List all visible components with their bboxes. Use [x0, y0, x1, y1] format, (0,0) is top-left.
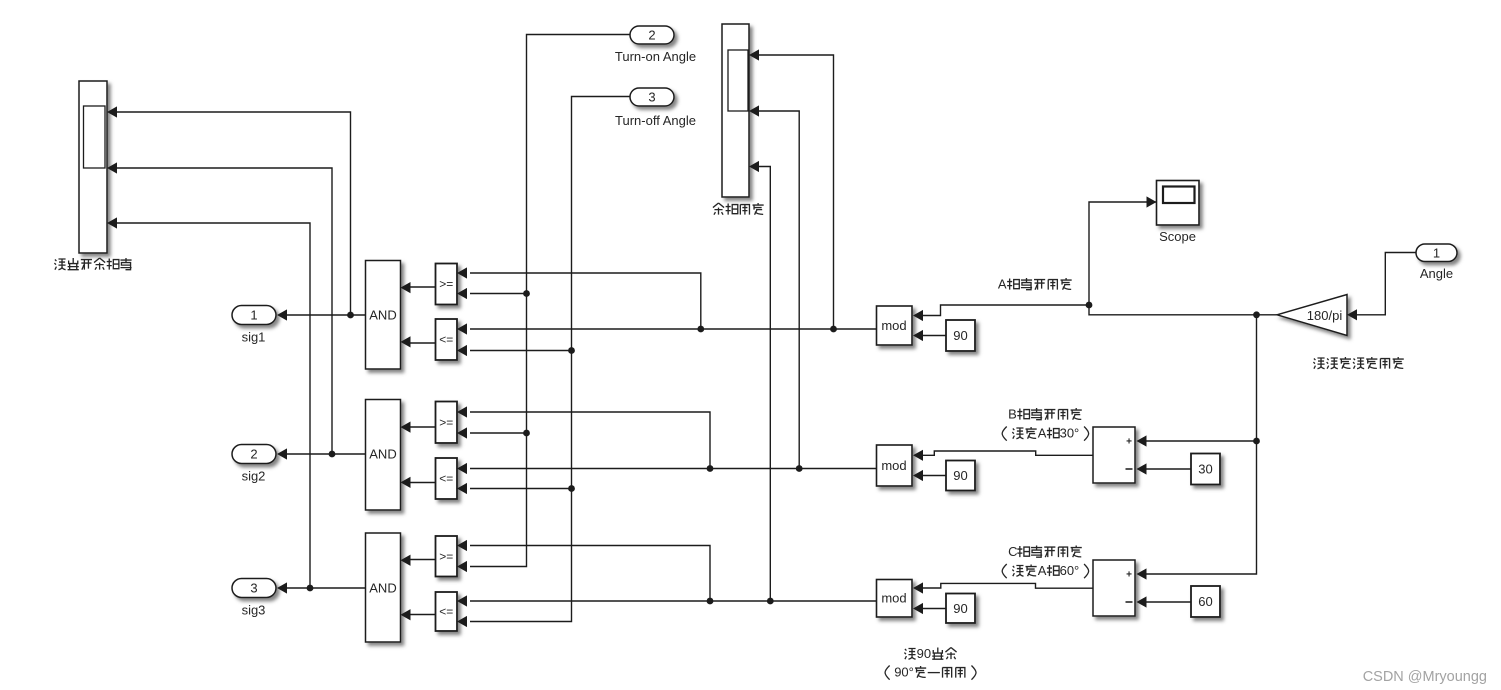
wire branch to GE2 in2	[470, 432, 527, 434]
svg-text:90°: 90°	[894, 665, 914, 680]
sum B minus input arrow	[1137, 463, 1147, 474]
wire Turn-on Angle to GE3 in2 (trunk)	[470, 35, 630, 567]
junction sig2 net	[329, 451, 336, 458]
junction turn-on trunk at GE1	[523, 290, 530, 297]
junction mod A line / 各相角度 riser	[830, 326, 837, 333]
label （滞后A相30°）	[1002, 426, 1088, 441]
GE3 input arrow 1	[457, 540, 467, 551]
sum block (phase B)	[1093, 427, 1135, 483]
port sig2 input arrow	[277, 448, 287, 459]
wire branch to GE1 in2	[470, 293, 527, 295]
svg-text:2: 2	[250, 447, 257, 462]
viewer 各相角度 inner screen	[728, 50, 748, 111]
AND2 input arrow 1	[401, 422, 411, 433]
svg-text:180/pi: 180/pi	[1307, 308, 1343, 323]
gain block 180/pi (rad to deg)	[1277, 295, 1347, 336]
svg-text:mod: mod	[881, 591, 906, 606]
label （90°为一周期）	[885, 665, 976, 680]
svg-text:1: 1	[250, 308, 257, 323]
junction at gain line to sum riser	[1253, 311, 1260, 318]
relational operator LE3 (<=)	[436, 592, 458, 631]
LE1 input arrow 1	[457, 323, 467, 334]
input port 2 Turn-on Angle oval	[630, 26, 674, 44]
relational operator LE2 (<=)	[436, 458, 458, 499]
wire sum B output to mod B in1 (jogged)	[917, 451, 1093, 455]
GE1 input arrow 2	[457, 288, 467, 299]
gain input arrow	[1347, 309, 1357, 320]
junction sig1 net	[347, 312, 354, 319]
label 除90取余 under mod C	[904, 646, 956, 661]
constant 90 block (phase A)	[946, 320, 975, 351]
junction sum riser at sum B	[1253, 438, 1260, 445]
mod B input arrow 1	[913, 450, 923, 461]
junction mod B line / GE2 branch	[707, 465, 714, 472]
wire LE2 output to AND2 in2	[405, 482, 436, 484]
label B相当前角度	[1008, 407, 1082, 422]
junction sig3 net	[307, 585, 314, 592]
junction mod A line / GE1 branch	[697, 326, 704, 333]
svg-text:<=: <=	[439, 472, 453, 486]
LE2 input arrow 2	[457, 483, 467, 494]
wire gain output to scope riser	[1089, 202, 1277, 315]
mod A input arrow 2	[913, 330, 923, 341]
sum C minus input arrow	[1137, 596, 1147, 607]
Scope inner screen	[1163, 187, 1195, 204]
svg-text:mod: mod	[881, 458, 906, 473]
wire sig2 net to viewer input2	[111, 168, 332, 454]
logical operator AND1	[366, 261, 401, 370]
constant 90 block (phase C)	[946, 594, 975, 624]
logical operator AND2	[366, 400, 401, 511]
GE1 input arrow 1	[457, 267, 467, 278]
svg-text:Angle: Angle	[1420, 266, 1453, 281]
port sig3 input arrow	[277, 582, 287, 593]
junction mod B line / 各相角度 riser 2	[796, 465, 803, 472]
svg-text:AND: AND	[369, 581, 396, 596]
svg-text:Turn-off Angle: Turn-off Angle	[615, 113, 696, 128]
AND1 input arrow 2	[401, 336, 411, 347]
wire branch to GE3 in1	[470, 546, 710, 602]
junction turn-off trunk at LE1	[568, 347, 575, 354]
label 各相角度 under phase viewer	[713, 203, 764, 215]
svg-text:+: +	[1126, 570, 1132, 581]
wire GE2 output to AND2 in1	[405, 426, 436, 428]
svg-text:>=: >=	[439, 549, 453, 563]
wire GE3 output to AND3 in1	[405, 559, 436, 561]
LE3 input arrow 1	[457, 595, 467, 606]
junction at scope riser / A-phase branch	[1086, 302, 1093, 309]
wire branch to sum B plus input	[1141, 440, 1257, 442]
label 将弧度转为角度 under gain	[1313, 357, 1403, 369]
constant 30 block	[1191, 454, 1220, 485]
AND2 input arrow 2	[401, 477, 411, 488]
svg-text:90: 90	[917, 646, 931, 661]
relational operator GE2 (>=)	[436, 402, 458, 444]
viewer 输出开关信号 input arrow 1	[107, 106, 117, 117]
wire mod C output to LE3 in1	[470, 600, 877, 602]
sum C minus sign	[1126, 601, 1133, 603]
signal viewer block 输出开关信号 (output switch signals)	[79, 81, 107, 253]
mod block (phase C)	[877, 580, 913, 618]
wire branch to LE1 in2	[470, 350, 572, 352]
svg-text:60°: 60°	[1060, 563, 1080, 578]
svg-text:Scope: Scope	[1159, 229, 1196, 244]
wire AND1 output to sig1	[281, 314, 366, 316]
wire 各相角度 input1 riser	[753, 55, 834, 329]
wire 各相角度 input3 riser	[753, 167, 770, 602]
wire branch to LE2 in2	[470, 488, 572, 490]
svg-text:+: +	[1126, 437, 1132, 448]
constant 90 block (phase B)	[946, 461, 975, 491]
sum B plus input arrow	[1137, 435, 1147, 446]
viewer 各相角度 input arrow 3	[749, 161, 759, 172]
svg-text:<=: <=	[439, 605, 453, 619]
output port 1 sig1 oval	[232, 306, 276, 325]
wire constant 60 to sum C minus	[1141, 601, 1191, 603]
output port 3 sig3 oval	[232, 579, 276, 598]
svg-text:60: 60	[1198, 594, 1212, 609]
sum C plus input arrow	[1137, 568, 1147, 579]
wire constant 90 C to mod C in2	[917, 608, 946, 610]
LE2 input arrow 1	[457, 463, 467, 474]
svg-text:AND: AND	[369, 447, 396, 462]
phase-angle viewer block 各相角度	[722, 24, 749, 197]
label 输出开关信号 under viewer block	[54, 258, 131, 270]
output port 2 sig2 oval	[232, 445, 276, 464]
junction turn-off trunk at LE2	[568, 485, 575, 492]
svg-text:A: A	[1038, 426, 1047, 441]
svg-text:>=: >=	[439, 277, 453, 291]
svg-text:3: 3	[648, 90, 655, 105]
port sig1 input arrow	[277, 309, 287, 320]
svg-text:90: 90	[953, 328, 967, 343]
sum block (phase C)	[1093, 560, 1135, 616]
wire branch to GE2 in1	[470, 412, 710, 469]
wire GE1 output to AND1 in1	[405, 286, 436, 288]
wire 各相角度 input2 riser	[753, 111, 799, 469]
svg-text:<=: <=	[439, 333, 453, 347]
wire mod A output to LE1 in1	[470, 328, 877, 330]
svg-text:90: 90	[953, 468, 967, 483]
viewer 输出开关信号 input arrow 3	[107, 217, 117, 228]
svg-text:mod: mod	[881, 318, 906, 333]
svg-text:30: 30	[1198, 462, 1212, 477]
svg-text:B: B	[1008, 407, 1017, 422]
mod C input arrow 1	[913, 582, 923, 593]
GE2 input arrow 2	[457, 427, 467, 438]
wire constant 90 B to mod B in2	[917, 475, 946, 477]
constant 60 block	[1191, 586, 1220, 617]
mod block (phase B)	[877, 445, 913, 486]
svg-text:1: 1	[1433, 245, 1440, 260]
mod B input arrow 2	[913, 470, 923, 481]
mod block (phase A)	[877, 306, 913, 345]
mod C input arrow 2	[913, 603, 923, 614]
wire branch to GE1 in1	[470, 273, 701, 329]
viewer 各相角度 input arrow 2	[749, 105, 759, 116]
viewer 输出开关信号 inner screen	[84, 106, 106, 168]
label C相当前角度	[1008, 544, 1082, 559]
junction mod C line / 各相角度 riser 3	[767, 598, 774, 605]
GE2 input arrow 1	[457, 406, 467, 417]
svg-text:90: 90	[953, 601, 967, 616]
AND1 input arrow 1	[401, 282, 411, 293]
AND3 input arrow 2	[401, 609, 411, 620]
wire sum C output to mod C in1 (jogged)	[917, 583, 1093, 588]
svg-text:CSDN @Mryoungg: CSDN @Mryoungg	[1363, 669, 1487, 685]
junction turn-on trunk at GE2	[523, 430, 530, 437]
viewer 各相角度 input arrow 1	[749, 49, 759, 60]
input port 3 Turn-off Angle oval	[630, 88, 674, 106]
Scope block	[1157, 181, 1200, 226]
svg-text:sig1: sig1	[242, 330, 266, 345]
label （滞后A相60°）	[1002, 563, 1088, 578]
wire constant 30 to sum B minus	[1141, 468, 1191, 470]
relational operator GE3 (>=)	[436, 536, 458, 577]
sum B minus sign	[1126, 468, 1133, 470]
svg-text:sig2: sig2	[242, 469, 266, 484]
wire Angle port to gain input	[1352, 253, 1416, 315]
LE3 input arrow 2	[457, 616, 467, 627]
wire sig3 net to viewer input3	[111, 223, 310, 588]
wire constant 90 A to mod A in2	[917, 335, 946, 337]
label A相当前角度 (phase A current angle)	[998, 277, 1072, 292]
Scope input arrow	[1147, 196, 1157, 207]
wire sig1 net to viewer input1	[111, 112, 351, 315]
svg-text:2: 2	[648, 28, 655, 43]
relational operator GE1 (>=)	[436, 264, 458, 305]
wire A-phase current angle (junction to mod A in1, jogged)	[917, 305, 1089, 316]
wire mod B output to LE2 in1	[470, 468, 877, 470]
svg-text:A: A	[998, 277, 1007, 292]
svg-text:>=: >=	[439, 415, 453, 429]
AND3 input arrow 1	[401, 555, 411, 566]
svg-text:3: 3	[250, 581, 257, 596]
LE1 input arrow 2	[457, 345, 467, 356]
wire AND3 output to sig3	[281, 587, 366, 589]
svg-text:AND: AND	[369, 308, 396, 323]
relational operator LE1 (<=)	[436, 319, 458, 360]
logical operator AND3	[366, 533, 401, 642]
viewer 输出开关信号 input arrow 2	[107, 162, 117, 173]
svg-text:sig3: sig3	[242, 603, 266, 618]
wire sum riser to sum C plus input	[1141, 315, 1257, 574]
svg-text:C: C	[1008, 544, 1017, 559]
mod A input arrow 1	[913, 310, 923, 321]
wire Turn-off Angle to LE3 in2 (trunk)	[470, 97, 630, 622]
wire LE3 output to AND3 in2	[405, 614, 436, 616]
svg-text:30°: 30°	[1060, 426, 1080, 441]
input port 1 Angle oval	[1416, 244, 1457, 262]
GE3 input arrow 2	[457, 561, 467, 572]
svg-text:A: A	[1038, 563, 1047, 578]
svg-text:Turn-on Angle: Turn-on Angle	[615, 49, 696, 64]
wire AND2 output to sig2	[281, 453, 366, 455]
junction mod C line / GE3 branch	[707, 598, 714, 605]
wire LE1 output to AND1 in2	[405, 342, 436, 344]
